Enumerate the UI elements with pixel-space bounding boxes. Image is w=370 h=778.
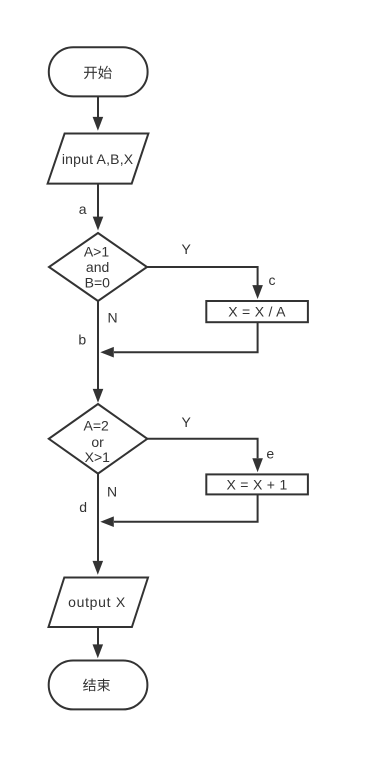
svg-text:and: and <box>86 259 109 275</box>
svg-text:d: d <box>79 499 87 515</box>
svg-text:B=0: B=0 <box>85 275 111 291</box>
label 开始 <box>84 66 112 79</box>
wire: X=X+1 down-left to node d <box>114 494 258 521</box>
svg-text:Y: Y <box>182 414 192 430</box>
svg-text:N: N <box>108 309 118 325</box>
svg-text:X = X / A: X = X / A <box>228 304 286 320</box>
svg-text:input A,B,X: input A,B,X <box>62 151 134 167</box>
process: X = X / A <box>206 301 308 322</box>
process: X = X + 1 <box>206 474 308 494</box>
svg-text:or: or <box>91 434 104 450</box>
svg-text:A>1: A>1 <box>84 243 110 259</box>
terminator: end <box>49 661 148 710</box>
svg-text:e: e <box>266 446 274 462</box>
decision D2: A=2 or X>1 <box>49 404 148 474</box>
decision D1: A>1 and B=0 <box>49 233 147 301</box>
svg-text:N: N <box>107 484 117 500</box>
parallelogram: output X <box>49 578 149 628</box>
svg-text:a: a <box>79 201 87 217</box>
wire trunk: D2 to output <box>97 474 99 561</box>
svg-text:Y: Y <box>182 241 192 257</box>
wire trunk: D1 to decision D2 <box>97 301 99 389</box>
terminator: start <box>49 47 148 96</box>
parallelogram: input A,B,X <box>48 134 149 184</box>
wire Y: D1 to process X=X/A <box>147 267 258 286</box>
wire: X=X/A down-left to node b <box>114 322 258 352</box>
svg-text:X>1: X>1 <box>85 449 111 465</box>
wire Y: D2 to process X=X+1 <box>147 439 257 459</box>
svg-text:X = X + 1: X = X + 1 <box>226 476 287 492</box>
wire: output to end <box>97 627 99 645</box>
label 结束 <box>83 679 110 692</box>
wire a: input to decision D1 <box>97 184 99 217</box>
svg-text:A=2: A=2 <box>84 417 110 433</box>
svg-text:output X: output X <box>68 594 126 610</box>
svg-text:b: b <box>78 332 86 348</box>
wire: start to input <box>97 97 99 118</box>
svg-text:c: c <box>269 272 276 288</box>
